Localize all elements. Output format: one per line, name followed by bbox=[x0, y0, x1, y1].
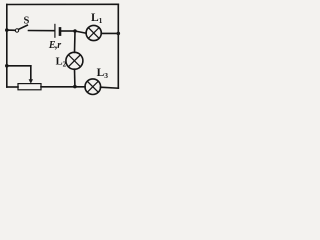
wire: slider branch vertical to wiper bbox=[30, 66, 32, 80]
svg-text:S: S bbox=[24, 15, 30, 26]
switch S: blade (open lever) bbox=[19, 25, 28, 29]
lamp L2: bulb circle with cross bbox=[66, 52, 83, 69]
wire: left rail bottom corner to rheostat left lead bbox=[7, 86, 18, 88]
node A: junction dot on middle wire bbox=[73, 29, 77, 33]
wire: lamp L1 to right rail bbox=[101, 32, 118, 34]
wire: lamp L2 down to node B bbox=[74, 69, 76, 86]
wire: right rail bbox=[117, 4, 119, 88]
switch S: pivot circle bbox=[15, 29, 18, 32]
battery E,r: short thick plate (-) bbox=[59, 28, 62, 34]
rheostat R: resistor box bbox=[18, 84, 41, 90]
node: junction of switch branch on left rail bbox=[5, 28, 9, 32]
wire: battery to node A bbox=[61, 30, 75, 32]
wire: top rail bbox=[7, 3, 119, 5]
node: junction dot on right rail bbox=[117, 32, 121, 36]
svg-text:L2: L2 bbox=[56, 56, 67, 68]
wire: slider branch horizontal bbox=[7, 65, 31, 67]
wire: junction to switch pivot bbox=[7, 29, 15, 31]
wire: rheostat right lead to lamp L3 (through node B) bbox=[41, 86, 85, 88]
rheostat R: wiper arrowhead bbox=[29, 79, 33, 84]
svg-text:L3: L3 bbox=[97, 67, 109, 80]
wire: switch to battery bbox=[29, 30, 55, 32]
wire: node A to lamp L1 bbox=[75, 31, 86, 33]
lamp L1: bulb circle with cross bbox=[86, 25, 101, 40]
wire: left rail bbox=[6, 5, 8, 88]
node: junction of rheostat slider branch on left rail bbox=[5, 64, 9, 68]
battery E,r: long plate (+) bbox=[54, 24, 56, 37]
wire: lamp L3 to right rail bottom corner bbox=[101, 87, 119, 88]
svg-text:E,r: E,r bbox=[48, 40, 61, 51]
node B: junction dot on bottom wire bbox=[73, 85, 77, 89]
svg-text:L1: L1 bbox=[91, 12, 103, 25]
lamp L3: bulb circle with cross bbox=[85, 79, 101, 95]
wire: node A down to lamp L2 bbox=[74, 31, 77, 52]
